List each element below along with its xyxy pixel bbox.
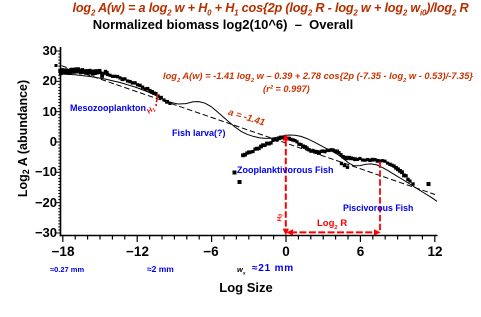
red dashed horizontal Log2R line with arrows — [290, 231, 375, 233]
in-plot fitted equation annotation — [163, 71, 473, 81]
blue label Piscivorous Fish — [343, 203, 413, 213]
svg-text:H1: H1 — [146, 105, 158, 117]
x tick labels — [48, 244, 78, 259]
blue mm labels — [50, 265, 84, 274]
title equation line — [60, 1, 481, 15]
x axis title — [0, 280, 481, 295]
red dashed vertical line at x=7.6 — [379, 162, 381, 232]
red Log2 R label — [317, 218, 347, 229]
dashed linear regression line — [62, 66, 436, 195]
svg-text:H0: H0 — [277, 214, 285, 222]
y-axis ticks — [56, 51, 61, 233]
y-axis — [60, 47, 438, 236]
subtitle — [0, 17, 446, 32]
a = -1.41 slope label — [227, 107, 266, 129]
red H1 amplitude mark — [156, 95, 158, 107]
data points: black squares band — [55, 64, 431, 186]
x-axis — [60, 235, 438, 237]
blue label Mesozooplankton — [70, 103, 146, 113]
blue label Zooplanktivorous Fish — [237, 165, 334, 175]
x-axis ticks — [63, 236, 435, 242]
r squared — [263, 84, 310, 94]
blue label Fish larva — [172, 128, 226, 138]
y tick labels — [0, 43, 57, 59]
solid cosine fit curve — [60, 74, 437, 201]
red dashed vertical line at x=0 (H0) with arrows — [283, 134, 381, 236]
